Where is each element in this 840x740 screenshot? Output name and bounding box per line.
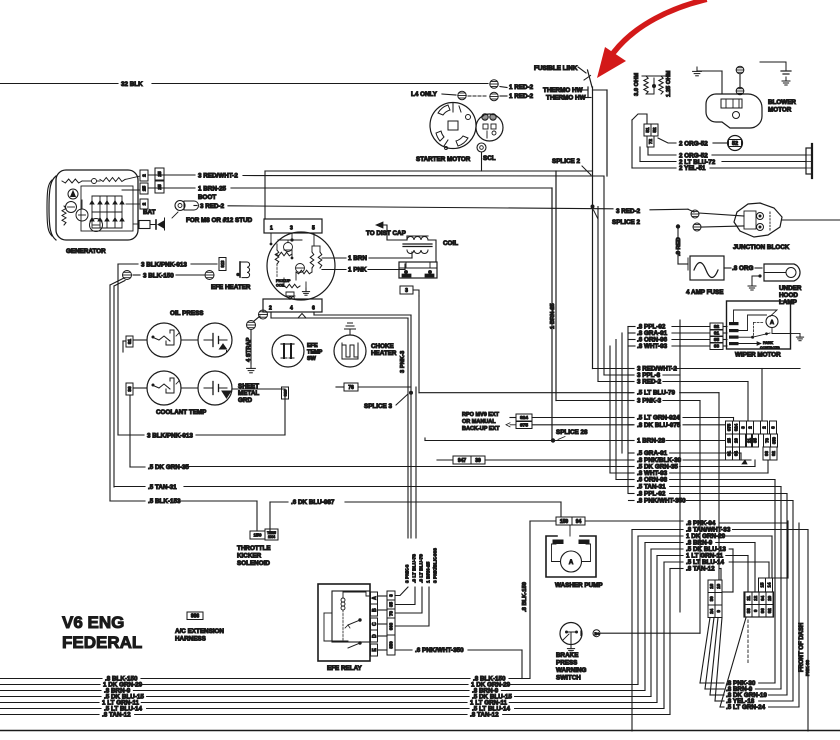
resistor 3.0 ohm (644, 76, 648, 94)
svg-text:METAL: METAL (238, 390, 259, 397)
wire dk grn-35 up (754, 460, 756, 467)
svg-text:3: 3 (389, 594, 394, 597)
distributor resistor v1 (275, 250, 279, 264)
svg-text:HOOD: HOOD (779, 292, 798, 299)
ground wiper (791, 333, 801, 335)
wire dist pin2 feed (270, 312, 272, 318)
svg-text:.8 WHT-93: .8 WHT-93 (637, 343, 668, 350)
svg-text:52: 52 (652, 127, 657, 133)
connector 913 (219, 258, 226, 271)
svg-text:3 PNK-3: 3 PNK-3 (637, 398, 662, 405)
connector pin 94 c2 (759, 592, 766, 605)
connector pin 92 c2 (766, 605, 773, 618)
connector pin 12 c2 (752, 592, 759, 605)
wire 913 corner (118, 263, 138, 265)
svg-text:GENERATOR: GENERATOR (66, 248, 106, 255)
wire bundle .8 BRN-9 (0, 690, 101, 692)
distributor resistor h2 (296, 270, 312, 274)
connector pin 20 row2 (733, 434, 740, 447)
connector 72 (647, 136, 654, 147)
wire pnk/blk-39 arrow (742, 460, 747, 464)
wiper park switch (739, 336, 753, 338)
wire kicker drops (256, 501, 258, 531)
svg-text:RPO MV9 EXT: RPO MV9 EXT (462, 412, 500, 418)
wire 4 strap diag (254, 316, 260, 321)
svg-text:SOLENOID: SOLENOID (237, 560, 270, 567)
connector pin 3 row1 (740, 421, 747, 434)
efe stack pin 350 (387, 635, 395, 655)
wire 2 lt blu-72 (639, 147, 641, 162)
connector pin 975 row1 (726, 421, 733, 434)
wire gauge row1 (133, 339, 147, 341)
svg-text:93: 93 (764, 451, 769, 456)
svg-text:8: 8 (771, 426, 776, 429)
blower motor body (706, 94, 762, 128)
connector 76 (344, 383, 358, 391)
ground blower left (696, 67, 698, 71)
svg-text:35: 35 (752, 438, 757, 443)
wire 3 red-2 long (194, 205, 197, 207)
svg-text:.5 LT BLU-79: .5 LT BLU-79 (637, 390, 676, 397)
oil press sender (147, 323, 181, 357)
svg-text:2: 2 (748, 426, 753, 429)
svg-text:WIPER MOTOR: WIPER MOTOR (735, 352, 781, 359)
svg-text:24: 24 (709, 608, 714, 613)
svg-text:CONTACTS: CONTACTS (760, 346, 780, 350)
wire fusible bus top link (593, 89, 608, 91)
connector c2 frame (744, 592, 774, 617)
connector pin 9 c2 (752, 605, 759, 618)
svg-text:913: 913 (282, 389, 287, 396)
svg-text:39: 39 (475, 458, 481, 464)
svg-text:350: 350 (389, 641, 394, 649)
distributor transistor 2 (296, 264, 305, 273)
connector pin 29 c2 (766, 592, 773, 605)
svg-text:3 BLK/PNK-913: 3 BLK/PNK-913 (147, 433, 193, 440)
wire bus 610 wht-93 (609, 346, 611, 473)
wiper motor armature (766, 316, 778, 328)
bolt blower lower (736, 87, 744, 95)
coolant temp sender (147, 371, 181, 405)
svg-text:BLOWER: BLOWER (768, 99, 796, 106)
svg-text:32 BLK: 32 BLK (121, 81, 143, 88)
choke heater body (334, 335, 366, 367)
svg-text:WARNING: WARNING (556, 667, 587, 674)
wire 1 brn-25 long (231, 187, 552, 189)
capacitor blower right (760, 61, 786, 63)
svg-text:975: 975 (520, 423, 528, 429)
svg-text:78: 78 (389, 611, 394, 616)
svg-text:.8 PPL-92: .8 PPL-92 (637, 491, 666, 498)
svg-text:2 ORG-52: 2 ORG-52 (679, 141, 708, 148)
wire dashed brake (747, 620, 749, 664)
connector pin 924 row1 (733, 421, 740, 434)
wire lt blu-79 run (419, 392, 633, 394)
starter motor brushes (438, 105, 450, 115)
connector pin 2 row1 (747, 421, 754, 434)
svg-text:29: 29 (767, 595, 772, 600)
efe temp switch contacts (283, 344, 285, 358)
svg-text:3: 3 (290, 226, 293, 232)
svg-text:HEATER: HEATER (371, 350, 397, 357)
wire bus 556 (555, 171, 557, 401)
wire dash feeder 0 (700, 618, 710, 684)
wire splice2 arrow (582, 166, 591, 175)
svg-text:OIL PRESS: OIL PRESS (170, 310, 203, 317)
svg-text:91: 91 (127, 339, 132, 345)
svg-text:PNK-30: PNK-30 (805, 659, 810, 676)
svg-text:35: 35 (389, 602, 394, 607)
svg-text:E: E (372, 648, 378, 652)
svg-text:72: 72 (648, 139, 653, 145)
wire bundle .5 LT BLU-14 (0, 708, 101, 710)
efe heater element (239, 262, 241, 277)
connector pin blank row1 (754, 421, 761, 434)
wire bundle .8 TAN-12 (0, 714, 99, 716)
svg-text:94: 94 (576, 519, 582, 525)
efe relay pin A (371, 592, 378, 604)
efe relay pin C (371, 618, 378, 630)
svg-text:.6 DK BLU-987: .6 DK BLU-987 (291, 499, 335, 506)
generator bat terminal (139, 221, 150, 229)
wire bundle .8 BLK-150 (0, 678, 102, 680)
node thermo junction (587, 87, 589, 98)
svg-text:OR MANUAL: OR MANUAL (462, 419, 496, 425)
resistor 1.25 ohm (659, 76, 663, 94)
bolt 4 strap (247, 321, 256, 330)
distributor transistor 1 (284, 243, 293, 252)
washer pump body (546, 536, 596, 577)
bolt junction upper (691, 210, 699, 218)
annotation red arrow (614, 0, 704, 52)
svg-text:EFE RELAY: EFE RELAY (327, 665, 363, 672)
wire bundle 1 LT GRN-11 (0, 702, 99, 704)
wire bus 110 (109, 285, 111, 501)
svg-text:1 RED-2: 1 RED-2 (509, 84, 534, 91)
wire junction bolts (699, 213, 744, 216)
fuse 4 amp body (690, 256, 724, 280)
wire starter bus horizontal (265, 170, 593, 172)
efe relay switch (342, 610, 344, 640)
svg-text:4: 4 (290, 306, 293, 312)
connector pin 2 row1 (761, 421, 768, 434)
connector pin 78 row2 (764, 434, 771, 447)
distributor lower detail (283, 278, 285, 286)
svg-text:3: 3 (405, 288, 408, 294)
coolant temp switch (198, 371, 232, 405)
svg-text:PARK: PARK (763, 341, 773, 345)
svg-text:2: 2 (142, 202, 148, 205)
bolt junction lower (693, 223, 701, 231)
connector pin 15 c2 (759, 578, 766, 592)
wiper motor brushes (729, 322, 739, 325)
generator pin 2 (140, 170, 148, 181)
node splice 2 dot (591, 205, 595, 209)
svg-text:KICKER: KICKER (237, 553, 262, 560)
svg-text:2: 2 (142, 174, 148, 177)
wire dk grn-29 vert (637, 536, 639, 685)
wire gra-91 left (622, 452, 634, 454)
wire pnk-94 drop (787, 521, 789, 578)
svg-text:947: 947 (458, 458, 467, 464)
wire dash feeder 1 (705, 618, 714, 690)
coil core bars (403, 243, 432, 245)
generator body (56, 170, 138, 240)
wire 2 yel-51 (632, 167, 676, 169)
wire orn-98 drop (774, 480, 776, 684)
wire fuse to lamp (724, 267, 731, 269)
svg-text:1 PNK: 1 PNK (348, 267, 367, 274)
connector pins 25 25 (155, 168, 164, 180)
svg-text:A: A (372, 596, 378, 600)
wire .8 red to fuse (677, 256, 679, 264)
antenna choke (349, 329, 351, 335)
svg-text:1.25 OHM: 1.25 OHM (666, 70, 672, 97)
connector pin 92 row3 (770, 447, 777, 460)
svg-text:93: 93 (714, 344, 720, 350)
svg-text:HARNESS: HARNESS (175, 636, 206, 643)
resistor gen top (62, 179, 82, 183)
generator left bracket (49, 176, 56, 240)
brake press warning switch (560, 623, 582, 645)
wire tan-12 drop (720, 569, 722, 581)
svg-text:3: 3 (741, 426, 746, 429)
generator pin 25a (140, 183, 148, 194)
svg-text:19: 19 (716, 583, 721, 588)
wire fusible link leader (578, 67, 586, 73)
connector right edge top (806, 148, 812, 174)
junction block body (734, 203, 782, 237)
wire blk-150 vertical (529, 521, 531, 679)
svg-text:3 BLK-150: 3 BLK-150 (143, 273, 174, 280)
fusible link symbol (588, 70, 593, 87)
starter motor body (430, 103, 476, 149)
connector pin 11 c2 (745, 592, 752, 605)
distributor resistor h1 (276, 252, 292, 256)
wire bus 408 (407, 318, 409, 538)
wire tan-12 vert (669, 569, 671, 715)
svg-text:.8 TAN-12: .8 TAN-12 (470, 712, 499, 719)
svg-text:.5 TAN-31: .5 TAN-31 (637, 484, 666, 491)
efe relay pin E (371, 644, 378, 656)
wire bus 628 ppl-92 (627, 327, 629, 494)
svg-text:924: 924 (734, 423, 739, 431)
wire ppl-8 drop (679, 320, 681, 612)
gen zigzag left (62, 206, 66, 225)
svg-text:9: 9 (716, 609, 721, 612)
svg-text:EFE HEATER: EFE HEATER (211, 284, 251, 291)
svg-text:76: 76 (348, 385, 354, 391)
wire relay D wire (378, 635, 388, 637)
wire pnk/wht-350 drop (792, 501, 794, 702)
wire fusible vertical bus B (606, 90, 608, 176)
wire brn-9 drop (754, 543, 756, 593)
wire 1 brn-25 stub (148, 187, 195, 189)
svg-text:5: 5 (312, 226, 315, 232)
wire ppl-92 drop (786, 494, 788, 696)
svg-text:1 BRN-25: 1 BRN-25 (550, 302, 556, 329)
gen circle B (68, 189, 78, 199)
connector pin 19 c1 (715, 580, 722, 593)
efe stack pin 78 (387, 609, 395, 618)
connector pin 9 c1 (715, 605, 722, 618)
svg-text:PRESS: PRESS (556, 660, 577, 667)
connector pin 25 row2 (726, 434, 733, 447)
svg-text:11: 11 (746, 595, 751, 600)
wire lt grn-11 vert (656, 556, 658, 703)
svg-text:.8 LT BLU-78: .8 LT BLU-78 (412, 554, 418, 583)
svg-text:150: 150 (253, 533, 261, 539)
svg-text:33: 33 (746, 608, 751, 613)
svg-text:.8 BLK-150: .8 BLK-150 (522, 582, 528, 612)
bolt blk-150 left (123, 271, 132, 280)
connector pin 92 (710, 323, 723, 330)
efe relay coil (341, 598, 345, 602)
svg-text:EFE: EFE (307, 343, 318, 349)
efe relay inner (332, 591, 370, 642)
connector pin 16 c1 (708, 580, 715, 593)
wire dash feeder 4 (720, 618, 746, 708)
wire bus 411 (410, 315, 412, 538)
svg-text:.5 DK GRN-35: .5 DK GRN-35 (148, 464, 189, 471)
wire relay 350 out (468, 649, 522, 651)
efe stack pin 35 (387, 600, 395, 609)
bolt terminal 1 RED-2 a (490, 80, 498, 88)
svg-text:3 PNK-3: 3 PNK-3 (400, 350, 406, 373)
wire bus 416 (415, 387, 417, 538)
svg-text:2: 2 (269, 306, 272, 312)
connector 91 left (126, 336, 133, 347)
solenoid SCL body (476, 114, 503, 141)
junction block pins (757, 213, 764, 220)
solenoid SCL terminal (477, 143, 486, 152)
svg-text:SW: SW (307, 356, 317, 362)
bolt blk-150 right (205, 271, 214, 280)
svg-text:2 YEL-51: 2 YEL-51 (679, 165, 706, 172)
svg-text:1984: 1984 (268, 535, 275, 539)
generator inner box (81, 186, 133, 231)
bolt terminal L4 (458, 91, 466, 99)
svg-text:.5 GRA-91: .5 GRA-91 (637, 450, 668, 457)
connector ring 52 (728, 136, 743, 151)
wire ppl-8 run (604, 374, 633, 376)
svg-text:30: 30 (709, 596, 714, 601)
svg-text:36: 36 (127, 386, 132, 392)
svg-text:GRD: GRD (238, 397, 252, 404)
wire red-2 run (598, 381, 633, 383)
svg-text:92: 92 (767, 608, 772, 613)
wire 913 riser (232, 389, 285, 435)
distributor pin drops (270, 233, 272, 244)
wire red/wht-2 run (593, 368, 634, 370)
wire tan-31 drop (780, 487, 782, 690)
brake switch terminal (593, 630, 600, 637)
wire bus 616 orn (615, 340, 617, 480)
wire blk-150 diag (110, 279, 123, 286)
ground blower right (785, 77, 787, 81)
oil press switch (198, 323, 232, 357)
connector pin 30 c1 (708, 593, 715, 606)
svg-text:.5 LT GRN-24: .5 LT GRN-24 (726, 704, 766, 711)
connector pin 33 c2 (745, 605, 752, 618)
starter motor lead (444, 140, 448, 146)
svg-text:.8 PNK/WHT-350: .8 PNK/WHT-350 (637, 498, 686, 505)
connector pin 91 (710, 330, 723, 337)
svg-text:150: 150 (560, 519, 569, 525)
svg-text:15: 15 (760, 582, 765, 587)
svg-text:.8 TAN-12: .8 TAN-12 (686, 566, 715, 573)
connector pin 96 c2 (759, 605, 766, 618)
svg-text:94: 94 (734, 451, 739, 456)
wire dk blu-13 vert (650, 549, 652, 697)
svg-text:1 BRN-28: 1 BRN-28 (637, 438, 665, 445)
efe temp switch body (272, 335, 304, 367)
svg-text:3 RED/WHT-2: 3 RED/WHT-2 (198, 173, 238, 180)
distributor body (267, 232, 335, 300)
svg-text:PICKUP: PICKUP (276, 279, 291, 283)
wiper motor top wire (734, 310, 778, 322)
distributor connector top (264, 219, 322, 233)
wire washer feed (560, 502, 562, 517)
wiper motor body (727, 301, 791, 349)
wire 91 box (123, 340, 126, 342)
svg-text:9: 9 (753, 609, 758, 612)
svg-text:WASHER PUMP: WASHER PUMP (555, 582, 603, 589)
coil winding lower (407, 250, 428, 254)
svg-text:A: A (770, 320, 774, 326)
wire front dash bus (798, 523, 800, 707)
svg-text:.6 ORN-98: .6 ORN-98 (637, 477, 668, 484)
svg-text:TEMP: TEMP (307, 350, 323, 356)
wire relay C wire (378, 623, 388, 625)
svg-text:.8 DK BLU-975: .8 DK BLU-975 (637, 422, 681, 429)
gen circle C (66, 202, 77, 213)
coil base (399, 262, 437, 278)
connector 3 below coil (400, 286, 413, 294)
ground 4 strap (250, 330, 252, 365)
wire fusible vertical bus A (592, 87, 594, 369)
wire brn-9 vert (644, 543, 646, 691)
svg-text:903: 903 (389, 622, 394, 630)
wire pnk-3 drop (699, 401, 701, 634)
svg-text:A: A (569, 560, 574, 566)
wire bottom edge (0, 730, 840, 732)
svg-text:.8 RED: .8 RED (676, 237, 682, 256)
wire gauge row2 (133, 387, 147, 389)
svg-text:25: 25 (726, 438, 731, 443)
svg-text:1 BRN-25: 1 BRN-25 (426, 561, 432, 583)
wire relay E wire (378, 649, 388, 651)
svg-text:THERMO HW: THERMO HW (546, 95, 586, 102)
wire bundle .5 DK BLU-15 (0, 696, 101, 698)
distributor arrow bottom (298, 314, 306, 319)
diode arrows gen (89, 200, 95, 205)
svg-text:SWITCH: SWITCH (556, 675, 581, 682)
connector pin 91 row3 (726, 447, 733, 460)
svg-text:51: 51 (645, 127, 650, 133)
blower motor pins (721, 99, 742, 108)
wire lt blu-79 drop (718, 393, 720, 580)
efe relay pin B (371, 604, 378, 616)
svg-text:L4 ONLY: L4 ONLY (411, 91, 438, 98)
svg-text:3 RED-2: 3 RED-2 (616, 208, 641, 215)
bolt blower mid (736, 66, 744, 74)
svg-text:JUNCTION BLOCK: JUNCTION BLOCK (733, 244, 790, 251)
svg-text:78: 78 (764, 438, 769, 443)
svg-text:SPLICE 3: SPLICE 3 (364, 403, 392, 410)
washer pump motor (561, 551, 582, 572)
bolt distributor (259, 310, 268, 319)
